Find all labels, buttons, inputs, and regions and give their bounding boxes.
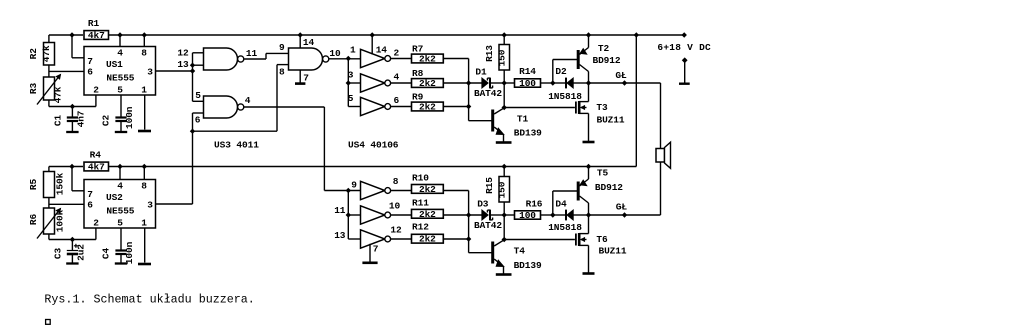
svg-text:100n: 100n	[124, 106, 135, 129]
svg-text:R5: R5	[28, 179, 39, 191]
node junction R15/rail2	[502, 164, 507, 169]
svg-text:BUZ11: BUZ11	[596, 115, 624, 126]
svg-text:8: 8	[279, 67, 285, 78]
node junction C3 tap	[70, 237, 75, 242]
svg-text:R4: R4	[90, 150, 102, 161]
wire R8 to D1	[443, 82, 481, 84]
svg-text:2k2: 2k2	[419, 209, 436, 220]
svg-text:7: 7	[87, 56, 93, 67]
inverter US4d	[361, 181, 385, 199]
svg-text:14: 14	[376, 44, 388, 55]
svg-text:6: 6	[87, 200, 93, 211]
svg-text:US1: US1	[106, 59, 123, 70]
svg-text:C4: C4	[101, 248, 112, 260]
node junction pin14/rail	[298, 32, 303, 37]
inverter US4b	[361, 74, 385, 92]
svg-text:R15: R15	[484, 177, 495, 194]
svg-text:5: 5	[117, 85, 123, 96]
svg-text:4k7: 4k7	[88, 30, 105, 41]
resistor R11	[412, 209, 444, 218]
wire R6 bottom to C3/pin2 line	[48, 234, 50, 240]
svg-text:BUZ11: BUZ11	[598, 246, 626, 257]
transistor Q2 T2 BD912	[552, 60, 554, 84]
svg-text:US3 4011: US3 4011	[214, 139, 259, 150]
node junction R14/D2/T2 base	[550, 80, 555, 85]
op-amp U1 timer US1 NE555 body	[84, 47, 156, 96]
wire gate A out to gate C input 9	[244, 58, 266, 60]
bullet square	[46, 320, 51, 325]
svg-text:13: 13	[177, 59, 189, 70]
svg-text:1: 1	[141, 218, 147, 229]
wire speaker bottom to GL bottom	[660, 162, 662, 215]
resistor R1	[84, 31, 109, 40]
svg-text:BAT42: BAT42	[474, 220, 502, 231]
svg-text:4: 4	[393, 72, 399, 83]
wire inverter bank A input tie	[347, 59, 349, 107]
nand gate US3a	[204, 48, 238, 70]
svg-text:R13: R13	[484, 45, 495, 62]
svg-text:D4: D4	[555, 199, 567, 210]
inverter US4e	[361, 206, 385, 224]
svg-text:1N5818: 1N5818	[548, 222, 582, 233]
nand gate US3b	[204, 96, 238, 118]
capacitor C3 electrolytic	[71, 240, 73, 251]
wire US3 pin14 to rail	[299, 35, 301, 48]
svg-text:US4 40106: US4 40106	[348, 139, 399, 150]
svg-text:D2: D2	[555, 66, 567, 77]
wire +V rail top (from R2 corner to supply end)	[49, 34, 83, 36]
wire bottom supply rail	[49, 166, 83, 168]
inverter US4c	[361, 97, 385, 115]
diode D1 BAT42	[482, 78, 488, 88]
svg-text:1N5818: 1N5818	[548, 91, 582, 102]
svg-text:R14: R14	[519, 66, 536, 77]
svg-text:10: 10	[389, 201, 401, 212]
wire R7 to common vertical	[443, 58, 468, 60]
wire US1 pin3 output	[156, 70, 193, 72]
svg-text:BD139: BD139	[514, 127, 542, 138]
svg-text:3: 3	[147, 67, 153, 78]
svg-text:47k: 47k	[41, 45, 52, 62]
svg-text:4n7: 4n7	[76, 110, 87, 127]
node junction R13/rail	[502, 32, 507, 37]
wire inv4 out to R10	[391, 190, 412, 192]
svg-text:11: 11	[246, 48, 258, 59]
node junction T4 collector / T6 gate	[502, 237, 507, 242]
svg-text:D1: D1	[475, 67, 487, 78]
svg-text:C3: C3	[53, 248, 64, 260]
wire US2 pin6 to R5/R6 junction	[49, 203, 84, 205]
wire inverter bank B input tie	[347, 191, 349, 240]
svg-text:100: 100	[519, 210, 536, 221]
wire common vertical to T1 base	[468, 59, 470, 121]
node junction GL top / T2 collector / T3 drain	[586, 80, 591, 85]
svg-text:T1: T1	[517, 114, 529, 125]
wire R3 bottom to C1/pin2 line	[48, 100, 50, 107]
wire gate B output to bank B	[244, 106, 325, 108]
svg-text:R6: R6	[28, 214, 39, 226]
wire GL bottom run	[589, 214, 661, 216]
svg-text:T2: T2	[598, 43, 610, 54]
svg-text:6: 6	[195, 115, 201, 126]
wire node to T4 collector	[503, 215, 505, 240]
svg-text:2: 2	[393, 48, 399, 59]
svg-text:7: 7	[303, 73, 309, 84]
resistor R7	[412, 54, 444, 63]
wire R2 top to rail	[48, 35, 50, 43]
svg-text:12: 12	[390, 225, 402, 236]
wire inv1 out to R7	[391, 58, 412, 60]
svg-text:150k: 150k	[55, 172, 66, 195]
svg-text:T5: T5	[597, 168, 609, 179]
svg-text:NE555: NE555	[106, 73, 134, 84]
resistor R2	[44, 43, 55, 66]
wire R5-R6 junction segment	[48, 198, 50, 209]
capacitor C4	[120, 228, 122, 240]
svg-text:NE555: NE555	[106, 206, 134, 217]
transistor Q3 T3 BUZ11 mosfet	[504, 107, 575, 109]
resistor R12	[412, 234, 444, 243]
potentiometer R3	[44, 77, 55, 100]
node GL bottom label anchor	[622, 212, 627, 217]
wire input 6 / pin3-US2 tie vertical	[193, 112, 205, 114]
wire 12/13/5 tie vertical	[192, 53, 194, 102]
resistor R8	[412, 79, 444, 88]
svg-text:GŁ: GŁ	[615, 70, 627, 81]
svg-text:2k2: 2k2	[419, 78, 436, 89]
wire R9 to common vertical	[443, 106, 468, 108]
node junction R12 tap	[466, 236, 471, 241]
node junction US1 pin3 / gate inputs	[190, 68, 195, 73]
node junction R16/D4/T5 base	[550, 212, 555, 217]
wire gate C output to inverter bank A	[329, 58, 361, 60]
svg-text:10: 10	[329, 48, 341, 59]
svg-text:9: 9	[351, 180, 357, 191]
resistor R16	[504, 214, 514, 216]
node junction T1 collector / T3 gate	[502, 105, 507, 110]
transistor Q1 T1 BD139	[491, 110, 494, 132]
wire GL top to speaker	[660, 83, 662, 149]
wire US2 pin2 drop	[95, 228, 97, 240]
node junction pin4/rail	[117, 32, 122, 37]
node junction riser/rail	[634, 32, 639, 37]
diode D3 BAT42	[482, 210, 488, 220]
svg-text:GŁ: GŁ	[616, 201, 628, 212]
diode D2 1N5818	[553, 82, 566, 84]
resistor R13	[503, 35, 505, 45]
wire inv5 out to R11	[391, 214, 412, 216]
wire R11 to D3	[443, 214, 481, 216]
wire common vertical B to T4 base	[468, 191, 470, 253]
svg-text:3: 3	[147, 200, 153, 211]
node junction GL bottom / T5 collector / T6 drain	[586, 212, 591, 217]
node junction C1 tap	[70, 104, 75, 109]
wire inv3 out to R9	[391, 106, 412, 108]
svg-text:8: 8	[393, 176, 399, 187]
node junction inv input 11	[346, 212, 351, 217]
svg-text:R3: R3	[28, 83, 39, 95]
svg-text:US2: US2	[106, 192, 123, 203]
svg-text:R10: R10	[412, 173, 429, 184]
svg-text:7: 7	[87, 189, 93, 200]
wire US1 pin8 to rail	[143, 35, 145, 46]
svg-text:T3: T3	[596, 102, 608, 113]
svg-text:C2: C2	[101, 115, 112, 127]
wire R12 to common vertical B	[443, 238, 468, 240]
wire US1 pin4 to rail	[119, 35, 121, 46]
node junction pin8/rail2	[142, 164, 147, 169]
transistor Q4 T4 BD139	[491, 242, 494, 264]
svg-text:T4: T4	[514, 246, 526, 257]
svg-text:C1: C1	[53, 115, 64, 127]
node junction R11/D3 line	[466, 212, 471, 217]
wire bottom rail riser to +V	[635, 35, 637, 167]
node supply rail end	[682, 32, 687, 37]
wire US4 pin7 ground	[369, 244, 371, 263]
svg-text:100: 100	[519, 78, 536, 89]
node junction R8/D1 line	[466, 80, 471, 85]
transistor Q6 T6 BUZ11 mosfet	[504, 239, 575, 241]
node junction rail2/pin7	[69, 164, 74, 169]
node junction D3/R15/R16/T4	[502, 212, 507, 217]
svg-text:1: 1	[141, 85, 147, 96]
wire US1 pin6 to R2/R3 junction	[49, 70, 84, 72]
svg-text:BD139: BD139	[514, 260, 542, 271]
svg-text:100n: 100n	[124, 241, 135, 264]
resistor R9	[412, 102, 444, 111]
wire US2 pin7 to rail2	[72, 190, 84, 192]
svg-text:2: 2	[93, 85, 99, 96]
ground US3 pin7	[299, 70, 301, 84]
node junction pin8/rail	[142, 32, 147, 37]
resistor R10	[412, 185, 444, 194]
svg-text:11: 11	[334, 205, 346, 216]
svg-text:2k2: 2k2	[419, 234, 436, 245]
svg-text:D3: D3	[477, 199, 489, 210]
svg-text:R2: R2	[28, 48, 39, 60]
svg-text:R11: R11	[412, 197, 429, 208]
ground US1 pin1	[144, 95, 146, 130]
svg-text:5: 5	[348, 93, 354, 104]
diode D4 1N5818	[553, 214, 566, 216]
svg-text:8: 8	[141, 181, 147, 192]
svg-text:13: 13	[334, 230, 346, 241]
svg-text:150: 150	[496, 49, 507, 66]
svg-text:Rys.1. Schemat układu buzzera.: Rys.1. Schemat układu buzzera.	[44, 292, 254, 306]
svg-text:14: 14	[303, 37, 315, 48]
node junction inv input 1	[346, 56, 351, 61]
node junction pin4/rail2	[117, 164, 122, 169]
wire US1 pin2 drop	[95, 95, 97, 107]
node junction R9 tap	[466, 104, 471, 109]
svg-text:R16: R16	[526, 199, 543, 210]
svg-text:4: 4	[245, 95, 251, 106]
supply arrow symbol	[684, 60, 686, 84]
svg-text:2k2: 2k2	[419, 102, 436, 113]
svg-text:4: 4	[117, 181, 123, 192]
svg-text:4: 4	[117, 48, 123, 59]
capacitor C2	[120, 95, 122, 107]
speaker GL	[656, 149, 665, 163]
svg-text:12: 12	[177, 47, 189, 58]
resistor R4	[84, 162, 109, 171]
svg-text:5: 5	[117, 218, 123, 229]
node junction inv input 3	[346, 80, 351, 85]
wire US2 pin8 to rail2	[143, 167, 145, 180]
svg-text:2k2: 2k2	[419, 184, 436, 195]
svg-text:R1: R1	[88, 18, 100, 29]
svg-text:8: 8	[141, 48, 147, 59]
svg-text:T6: T6	[596, 234, 608, 245]
svg-text:6: 6	[393, 95, 399, 106]
inverter US4f	[361, 230, 385, 248]
svg-text:2: 2	[93, 218, 99, 229]
node junction US4 pin14/rail	[370, 32, 375, 37]
svg-text:BD912: BD912	[592, 55, 620, 66]
ground US2 pin1	[144, 228, 146, 263]
svg-text:BD912: BD912	[595, 182, 623, 193]
svg-text:5: 5	[195, 90, 201, 101]
svg-text:150: 150	[496, 181, 507, 198]
node junction inv input 9	[346, 188, 351, 193]
wire node to T1 collector	[503, 83, 505, 108]
node GL top label anchor	[622, 80, 627, 85]
wire R10 to common vertical B	[443, 190, 468, 192]
inverter US4a	[361, 49, 385, 67]
wire R5 top to rail2	[48, 167, 50, 172]
wire US1 pin7 to rail	[72, 57, 84, 59]
node junction T5 emitter/rail2	[586, 164, 591, 169]
svg-text:4k7: 4k7	[88, 162, 105, 173]
resistor R15	[503, 167, 505, 177]
svg-text:6: 6	[87, 67, 93, 78]
node junction T2 emitter/rail	[586, 32, 591, 37]
node junction 8-line tap	[190, 129, 195, 134]
svg-text:R12: R12	[412, 221, 429, 232]
wire US2 pin4 to rail2	[119, 167, 121, 180]
svg-text:6+18 V DC: 6+18 V DC	[657, 42, 711, 53]
wire 8-line to gate C input 8	[193, 130, 278, 132]
wire inv2 out to R8	[391, 82, 412, 84]
svg-text:1: 1	[350, 45, 356, 56]
nand gate US3c	[289, 48, 323, 70]
wire R2-R3 junction segment	[48, 65, 50, 77]
svg-text:9: 9	[279, 42, 285, 53]
svg-text:3: 3	[348, 70, 354, 81]
svg-text:BAT42: BAT42	[474, 88, 502, 99]
op-amp U2 timer US2 NE555 body	[84, 180, 156, 229]
svg-text:47k: 47k	[53, 86, 64, 103]
node junction gate A input 13	[190, 63, 195, 68]
wire inv6 out to R12	[391, 238, 412, 240]
wire GL top run	[589, 82, 661, 84]
svg-text:7: 7	[373, 244, 379, 255]
potentiometer R6	[44, 208, 55, 234]
capacitor C1	[71, 107, 73, 118]
node junction rail/pin7	[69, 32, 74, 37]
resistor R14	[504, 82, 514, 84]
svg-text:2k2: 2k2	[419, 54, 436, 65]
resistor R5	[44, 172, 55, 198]
transistor Q5 T5 BD912	[552, 191, 554, 215]
wire US4 pin14 to rail	[371, 35, 373, 55]
node junction D1/R13/R14/T1	[502, 80, 507, 85]
